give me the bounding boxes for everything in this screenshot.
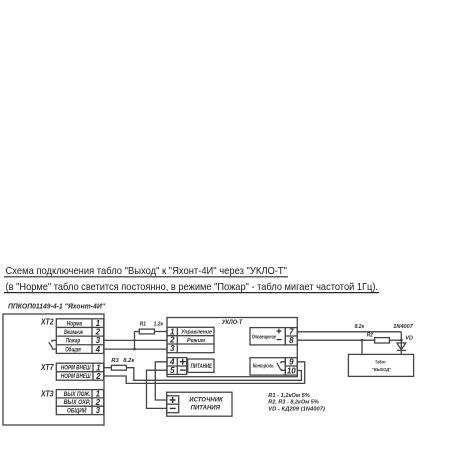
svg-text:3: 3	[96, 336, 101, 345]
svg-text:(в "Норме" табло светится пост: (в "Норме" табло светится постоянно, в р…	[6, 281, 379, 293]
wire XT2:3 (Пожар) to UKLO:2	[104, 339, 167, 341]
svg-text:ВЫХ ПОЖ.: ВЫХ ПОЖ.	[64, 391, 91, 398]
svg-text:НОРМ ВНЕШ: НОРМ ВНЕШ	[61, 364, 91, 371]
svg-text:R3: R3	[111, 358, 118, 364]
svg-text:3: 3	[96, 406, 101, 415]
svg-text:1.2к: 1.2к	[154, 322, 164, 328]
wire XT2:4 (Общая) to UKLO:3	[104, 348, 167, 350]
resistor R1 with value 1.2к	[135, 329, 155, 349]
svg-text:3: 3	[170, 344, 175, 353]
wire XT7:2 to UKLO:9 (bus under box)	[104, 362, 305, 384]
svg-text:ИСТОЧНИК: ИСТОЧНИК	[189, 397, 223, 404]
device ППКОП01149-4-1 "Яхонт-4И" (outer box + title)	[8, 302, 105, 311]
terminal block XT2	[40, 318, 54, 327]
svg-text:8.2к: 8.2к	[355, 324, 365, 330]
svg-text:ППКОП01149-4-1 "Яхонт-4И": ППКОП01149-4-1 "Яхонт-4И"	[8, 302, 105, 311]
minus sign pin5	[180, 369, 186, 371]
plus sign pin7	[277, 329, 282, 340]
relay contact inside Контроль	[277, 362, 285, 371]
power supply ИСТОЧНИК ПИТАНИЯ	[167, 392, 232, 416]
svg-text:ХТ3: ХТ3	[40, 389, 54, 398]
svg-text:Табло: Табло	[375, 359, 386, 366]
svg-text:5: 5	[170, 366, 175, 375]
svg-text:Норма: Норма	[67, 320, 83, 327]
resistor R3 with value 8.2к	[104, 365, 127, 370]
module UKLO-T box	[167, 318, 297, 377]
wire UKLO:7 to diode VD	[297, 331, 401, 333]
notes: component values	[268, 393, 325, 413]
junction on wire 8	[361, 339, 364, 342]
svg-text:2: 2	[95, 372, 101, 381]
svg-text:Схема подключения табло "Выход: Схема подключения табло "Выход" к "Яхонт…	[6, 265, 288, 277]
svg-text:4: 4	[95, 345, 101, 354]
svg-text:ПИТАНИЕ: ПИТАНИЕ	[191, 363, 213, 370]
svg-text:УКЛО-Т: УКЛО-Т	[222, 319, 244, 326]
UKLO output Контроль pins 9,10	[250, 358, 297, 375]
svg-text:8: 8	[289, 336, 294, 345]
junction at diode node	[400, 339, 403, 342]
svg-text:Управление: Управление	[181, 330, 212, 336]
svg-text:Общая: Общая	[65, 346, 81, 353]
svg-text:НОРМ ВНЕШ: НОРМ ВНЕШ	[61, 373, 91, 380]
svg-text:R1 - 1,2кОм 5%: R1 - 1,2кОм 5%	[268, 393, 310, 399]
wire R1 to UKLO:1	[154, 331, 167, 333]
plus sign pin4	[180, 359, 186, 370]
UKLO pins 4,5 ПИТАНИЕ	[167, 358, 214, 375]
resistor R2 with value 8.2к	[375, 338, 390, 343]
wire R2 to diode node	[389, 339, 401, 341]
svg-text:Внимание: Внимание	[64, 329, 83, 336]
diode VD 1N4007	[397, 332, 406, 355]
svg-text:9: 9	[289, 358, 294, 367]
PSU minus terminal	[170, 407, 176, 409]
wire UKLO:4 to PSU plus	[155, 362, 167, 400]
wire junction to tablo left terminal	[361, 340, 363, 354]
svg-text:Пожар: Пожар	[66, 338, 81, 345]
PSU plus terminal	[170, 399, 176, 401]
svg-text:Оповещение: Оповещение	[252, 334, 276, 340]
UKLO output Оповещение pins 7,8	[250, 328, 297, 345]
svg-text:R2, R3 - 8,2кОм 5%: R2, R3 - 8,2кОм 5%	[268, 400, 319, 406]
wire UKLO:5 to PSU minus	[147, 370, 168, 408]
svg-text:"ВЫХОД": "ВЫХОД"	[372, 367, 392, 373]
svg-text:10: 10	[287, 366, 296, 375]
svg-text:1: 1	[96, 319, 101, 328]
wire UKLO:8 to R2	[297, 339, 374, 341]
svg-text:ХТ7: ХТ7	[40, 363, 54, 372]
svg-text:ХТ2: ХТ2	[40, 318, 54, 327]
svg-text:8.2к: 8.2к	[123, 358, 135, 364]
wire R3 to UKLO:10 (bus under box)	[126, 368, 301, 381]
svg-text:VD - КД209 (1N4007): VD - КД209 (1N4007)	[268, 407, 325, 413]
svg-text:R1: R1	[140, 322, 146, 328]
svg-text:R2: R2	[367, 333, 373, 339]
svg-text:1N4007: 1N4007	[393, 324, 414, 330]
terminal block XT3	[40, 389, 54, 398]
svg-text:ПИТАНИЯ: ПИТАНИЯ	[191, 405, 220, 412]
svg-text:Режим: Режим	[187, 338, 206, 344]
svg-text:Контроль: Контроль	[253, 363, 274, 369]
minus sign pin8	[277, 339, 282, 341]
svg-text:ОБЩИЙ: ОБЩИЙ	[67, 407, 87, 415]
terminal block XT7	[40, 363, 54, 372]
svg-text:ВЫХ ОХР,: ВЫХ ОХР,	[64, 399, 91, 406]
title line 1	[6, 265, 288, 277]
relay contact at XT2 pins 3-4	[49, 340, 57, 349]
svg-text:VD: VD	[405, 336, 413, 342]
UKLO pins 1,2,3 with labels Управление / Режим	[167, 327, 214, 352]
tablo ВЫХОД box	[348, 354, 413, 376]
junction on Общая wire	[133, 348, 136, 351]
title line 2	[6, 281, 379, 293]
